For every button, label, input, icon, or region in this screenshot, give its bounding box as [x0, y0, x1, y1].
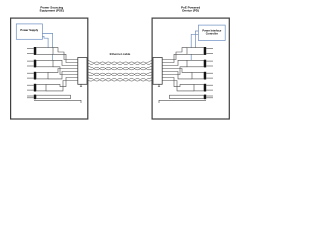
wire T2 bottom to pin6 — [53, 67, 78, 75]
connector J2 (PD 8P8C jack) — [153, 58, 162, 85]
transformer T1R — [187, 48, 213, 55]
wire U1 to T1R center tap — [195, 31, 198, 48]
svg-text:Ethernet cable: Ethernet cable — [110, 52, 131, 56]
transformer T5R — [170, 95, 214, 98]
transformer T3R — [192, 72, 213, 79]
twisted pair 4 — [87, 78, 153, 82]
wire T2R top to pin3R — [162, 60, 187, 65]
transformer T3 — [27, 72, 48, 79]
power supply PS1 — [16, 24, 42, 39]
wire T4 top to pin7 — [46, 78, 78, 87]
twisted pair 3 — [87, 72, 153, 76]
wire T3 bottom to pin5 — [48, 72, 78, 79]
wire T4R bottom to pin8R — [162, 81, 194, 91]
svg-text:Controller: Controller — [206, 32, 218, 36]
transformer T2R — [187, 60, 213, 67]
wire PS+ to T1 center tap — [42, 36, 48, 47]
wire T1R top to pin1R — [162, 48, 187, 60]
transformer T5 — [27, 95, 71, 98]
wire U1 to T2R center tap — [191, 34, 198, 60]
PD interface controller U1 — [198, 25, 225, 40]
PD enclosure box — [152, 18, 229, 119]
transformer T1 — [27, 48, 53, 55]
connector J1 (PSE 8P8C jack) — [78, 58, 87, 85]
wire T5 shield lead — [34, 100, 81, 103]
PSE enclosure box — [11, 18, 88, 119]
wire T3 top to pin4 — [48, 69, 78, 73]
ground tick J1 — [80, 84, 82, 86]
wire PS- to T2 center tap — [42, 33, 52, 60]
svg-text:Device (PD): Device (PD) — [182, 8, 199, 12]
transformer T4R — [194, 84, 213, 91]
wire T3R bottom to pin5R — [162, 72, 192, 79]
wire T4R top to pin7R — [162, 78, 194, 87]
wire T1 top to pin1 — [53, 48, 78, 60]
svg-text:Power Supply: Power Supply — [20, 28, 38, 32]
ground tick J2 — [158, 84, 160, 86]
wire T3R top to pin4R — [162, 69, 192, 73]
wire T1 bottom to pin2 — [53, 54, 78, 62]
wire T2R bottom to pin6R — [162, 67, 187, 75]
svg-text:Equipment (PSE): Equipment (PSE) — [40, 8, 64, 12]
wire T5R shield lead — [159, 100, 206, 103]
wire T1R bottom to pin2R — [162, 54, 187, 62]
wire T4 bottom to pin8 — [46, 81, 78, 91]
twisted pair 1 — [87, 60, 153, 65]
transformer T2 — [27, 60, 53, 67]
twisted pair 2 — [87, 66, 153, 70]
wire T2 top to pin3 — [53, 60, 78, 65]
transformer T4 — [27, 84, 46, 91]
